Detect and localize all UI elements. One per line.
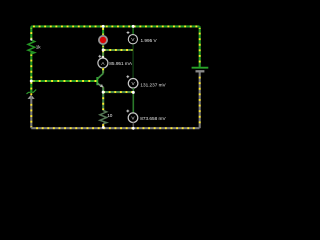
- resistor R2 10 ohm zigzag: [100, 111, 107, 124]
- transistor Q1 emitter lead: [98, 84, 104, 88]
- wire LED to junction post: [102, 45, 104, 50]
- current dots R2 bottom stub: [102, 124, 104, 127]
- voltmeter M3 top lead: [132, 92, 134, 113]
- wire right vertical ground (battery - to rail): [199, 71, 201, 128]
- current dots left vertical lower: [30, 55, 32, 96]
- junction post ammeter top: [102, 56, 104, 58]
- current dots bottom rail: [33, 127, 199, 129]
- junction post R1 top: [30, 38, 32, 40]
- voltmeter M2 bottom lead: [132, 88, 134, 92]
- zener D2 cathode bar with bent tips: [27, 90, 37, 94]
- wire emitter down to resistor R2: [102, 87, 104, 110]
- junction post R2 bottom: [102, 126, 105, 129]
- junction post LED bottom junction: [102, 49, 105, 52]
- current dots right vertical: [199, 28, 201, 65]
- svg-text:1k: 1k: [36, 44, 42, 49]
- transistor Q1 base bar: [96, 77, 98, 85]
- junction post meter M2 bottom: [132, 91, 135, 94]
- ammeter A1 circle: [98, 58, 108, 68]
- transistor Q1 emitter arrow: [100, 84, 104, 87]
- wire junction post to ammeter: [102, 50, 104, 58]
- voltmeter M2 circle: [128, 79, 138, 89]
- wire base node to zener top: [30, 81, 32, 92]
- current dots right ground vertical: [199, 73, 201, 127]
- wire right vertical positive (rail to battery +): [199, 26, 201, 67]
- current dots junction row: [105, 49, 133, 51]
- junction post meter M3 bottom: [132, 127, 135, 130]
- voltmeter M1 bottom lead: [132, 44, 134, 50]
- voltmeter M1 circle: [128, 35, 137, 44]
- junction post top rail at LED branch: [102, 25, 105, 28]
- junction row horizontal (LED bottom to meter column): [103, 49, 133, 51]
- battery V1 minus plate: [196, 70, 205, 72]
- LED D1 body: [99, 36, 107, 44]
- current dots top rail: [33, 25, 199, 27]
- resistor R1 1k zigzag: [28, 40, 35, 54]
- voltmeter M1 top lead: [132, 26, 134, 34]
- wire top rail (+3V): [31, 25, 199, 27]
- wire bottom ground rail: [31, 127, 199, 129]
- current dots emitter column: [102, 88, 104, 110]
- wire left vertical top (rail to R1): [30, 26, 32, 40]
- svg-text:1.995 V: 1.995 V: [141, 38, 158, 43]
- current dots emitter row: [105, 91, 133, 93]
- current dots base wire: [34, 80, 97, 82]
- current dots ammeter-collector: [102, 68, 104, 73]
- transistor Q1 collector lead: [98, 73, 104, 79]
- voltmeter M3 circle: [128, 113, 138, 123]
- ammeter A1 plus mark: [98, 55, 101, 58]
- voltmeter M3 plus mark: [126, 110, 129, 113]
- voltmeter M2 plus mark: [126, 75, 129, 78]
- wire R2 bottom to ground rail: [102, 124, 104, 129]
- voltmeter M3 bottom lead: [132, 123, 134, 129]
- svg-text:131.237 mV: 131.237 mV: [140, 83, 166, 88]
- junction post emitter node: [102, 91, 105, 94]
- wire base horizontal (node to Q1 base): [31, 80, 97, 82]
- voltmeter M2 top lead: [132, 50, 134, 78]
- junction post base node: [30, 80, 33, 83]
- voltmeter M1 plus mark: [127, 31, 130, 34]
- svg-text:10: 10: [107, 113, 113, 118]
- zener D2 anode lead through triangle: [30, 95, 32, 99]
- wire left vertical mid (R1 to base node): [30, 53, 32, 81]
- junction post top rail at meter column: [132, 25, 135, 28]
- wire LED branch top (rail to LED): [102, 26, 104, 35]
- svg-text:873.658 mV: 873.658 mV: [140, 116, 166, 121]
- zener D2 anode triangle: [28, 95, 35, 99]
- battery V1 plus plate: [192, 67, 209, 69]
- svg-text:85.951 mA: 85.951 mA: [109, 61, 133, 66]
- wire left vertical ground (zener to bottom rail): [30, 99, 32, 128]
- current dots left vertical upper: [30, 28, 32, 39]
- wire ammeter to collector: [102, 68, 104, 73]
- wire emitter row horizontal (to meter M2 bottom post): [103, 91, 133, 93]
- current dots LED-ammeter: [102, 46, 104, 58]
- current dots LED branch: [102, 28, 104, 35]
- current dots left ground vertical: [30, 100, 32, 127]
